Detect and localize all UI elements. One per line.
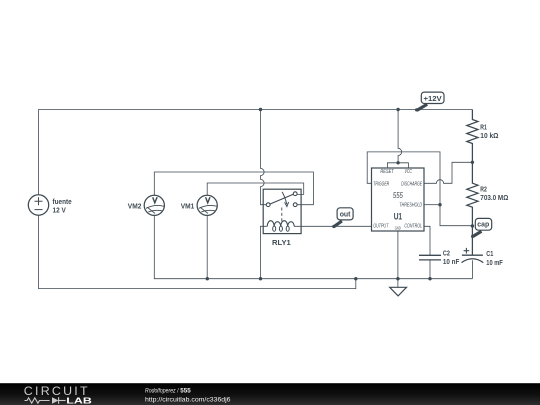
- svg-text:555: 555: [393, 191, 403, 200]
- svg-text:THRESHOLD: THRESHOLD: [399, 203, 422, 209]
- svg-text:http://circuitlab.com/c336dj6: http://circuitlab.com/c336dj6: [145, 396, 231, 403]
- svg-text:C1: C1: [486, 251, 493, 258]
- svg-text:12 V: 12 V: [53, 208, 67, 215]
- svg-text:VM1: VM1: [181, 203, 195, 210]
- svg-text:R1: R1: [480, 124, 487, 131]
- svg-text:fuente: fuente: [53, 199, 72, 206]
- svg-text:cap: cap: [477, 222, 489, 229]
- svg-text:10 nF: 10 nF: [443, 259, 460, 266]
- svg-text:R2: R2: [480, 186, 487, 193]
- svg-text:VM2: VM2: [128, 203, 142, 210]
- svg-text:10 kΩ: 10 kΩ: [480, 133, 499, 140]
- svg-text:RESET: RESET: [380, 169, 394, 175]
- svg-text:VCC: VCC: [405, 169, 413, 175]
- svg-text:Rodolfoperez /: Rodolfoperez /: [145, 387, 179, 394]
- svg-text:TRIGGER: TRIGGER: [373, 181, 389, 187]
- svg-text:555: 555: [180, 387, 191, 394]
- svg-text:GND: GND: [395, 225, 401, 231]
- svg-text:10 mF: 10 mF: [486, 260, 503, 267]
- svg-text:+12V: +12V: [424, 96, 443, 103]
- svg-text:OUTPUT: OUTPUT: [373, 223, 388, 229]
- svg-text:U1: U1: [394, 212, 402, 222]
- svg-text:DISCHARGE: DISCHARGE: [401, 181, 422, 187]
- svg-text:RLY1: RLY1: [272, 240, 291, 247]
- svg-text:LAB: LAB: [66, 396, 92, 405]
- svg-text:703.0 MΩ: 703.0 MΩ: [480, 195, 508, 202]
- svg-text:out: out: [340, 212, 351, 219]
- svg-text:C2: C2: [443, 250, 450, 257]
- svg-text:CONTROL: CONTROL: [404, 223, 422, 229]
